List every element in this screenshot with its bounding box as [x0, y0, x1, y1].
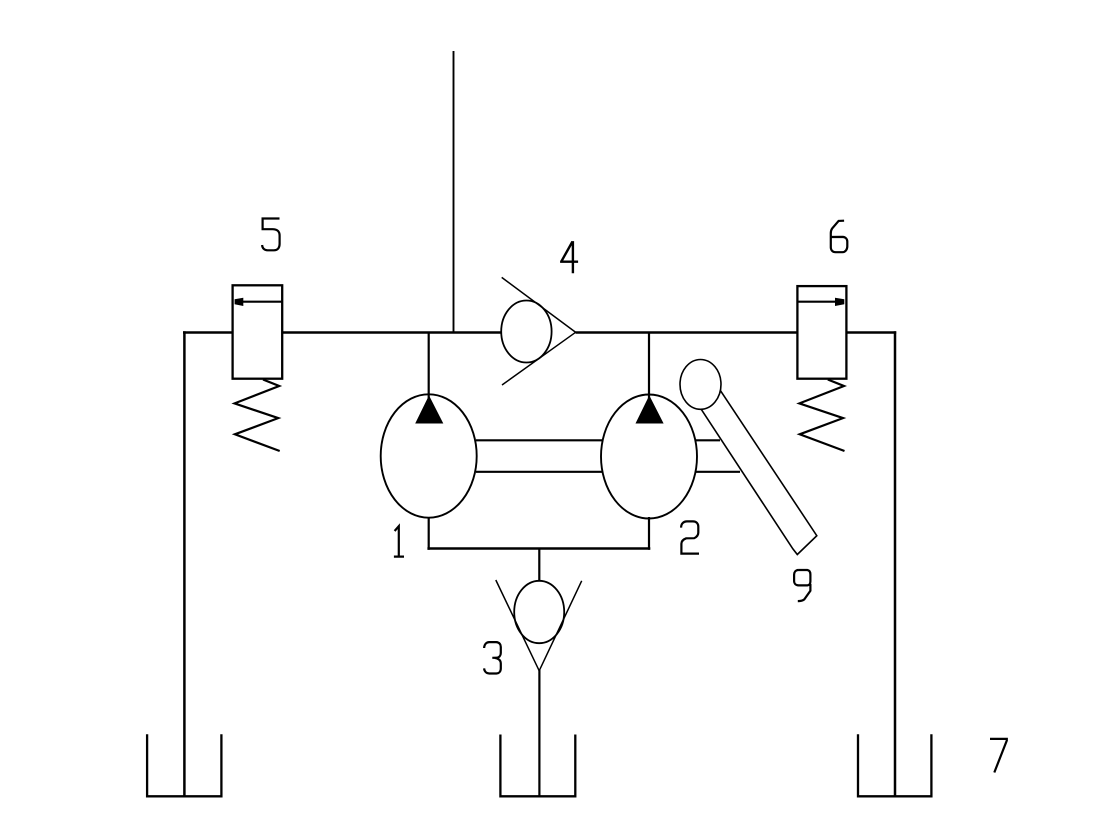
wire: feed line into check valve 3: [538, 549, 540, 582]
pump 1 flow triangle: [416, 397, 443, 424]
pump interconnect line lower: [476, 471, 602, 473]
check valve 3 ball circle: [514, 581, 564, 643]
tank middle: [500, 735, 575, 797]
lever 9 rod: [701, 391, 817, 554]
label 1: [394, 526, 404, 556]
label 3: [484, 642, 501, 673]
lever 9 knob: [680, 360, 721, 410]
label 7: [990, 739, 1007, 773]
relief valve 5 spring: [235, 380, 280, 452]
relief valve 5 internal arrow (points left): [235, 298, 282, 306]
relief valve 6 body: [797, 286, 846, 379]
check valve 4 seat (angle bracket): [502, 277, 576, 385]
label 4: [560, 241, 578, 273]
relief valve 6 spring: [799, 380, 844, 452]
check valve 3 seat (V shape): [496, 580, 582, 671]
pump 1 body circle: [381, 394, 477, 517]
pump interconnect line upper: [476, 439, 602, 441]
label 2: [681, 521, 699, 553]
label 9: [794, 570, 810, 601]
wire: stub pump 2 to lever lower: [695, 471, 740, 473]
wire: bottom collector bus: [427, 547, 650, 549]
wire: pump 1 outlet drop: [428, 517, 430, 550]
wire: pump 2 outlet drop: [648, 517, 650, 550]
tank right: [858, 734, 931, 796]
pump 2 flow triangle: [636, 397, 663, 424]
check valve 4 ball circle: [501, 301, 551, 363]
wire: bus segment check valve 4 to valve 6: [576, 331, 798, 333]
relief valve 5 body: [233, 285, 283, 378]
wire: main horizontal bus left segment (left pipe to valve 5): [183, 331, 233, 333]
wire: right return pipe: [894, 331, 897, 797]
wire: bus segment valve 5 to check valve 4: [282, 331, 502, 333]
wire: bus segment valve 6 to right pipe: [846, 331, 896, 333]
wire: pump 2 inlet riser: [648, 333, 650, 400]
wire: pump 1 inlet riser: [428, 333, 430, 400]
pump 2 body circle: [601, 395, 697, 519]
relief valve 6 internal arrow (points right): [798, 298, 845, 306]
wire: stub pump 2 to lever upper: [695, 439, 720, 441]
wire: top supply vertical line: [453, 51, 455, 333]
wire: check valve 3 outlet to middle tank: [538, 670, 540, 797]
label 6: [831, 221, 848, 253]
label 5: [262, 219, 280, 251]
tank left: [147, 734, 221, 796]
wire: left return pipe: [183, 331, 186, 797]
